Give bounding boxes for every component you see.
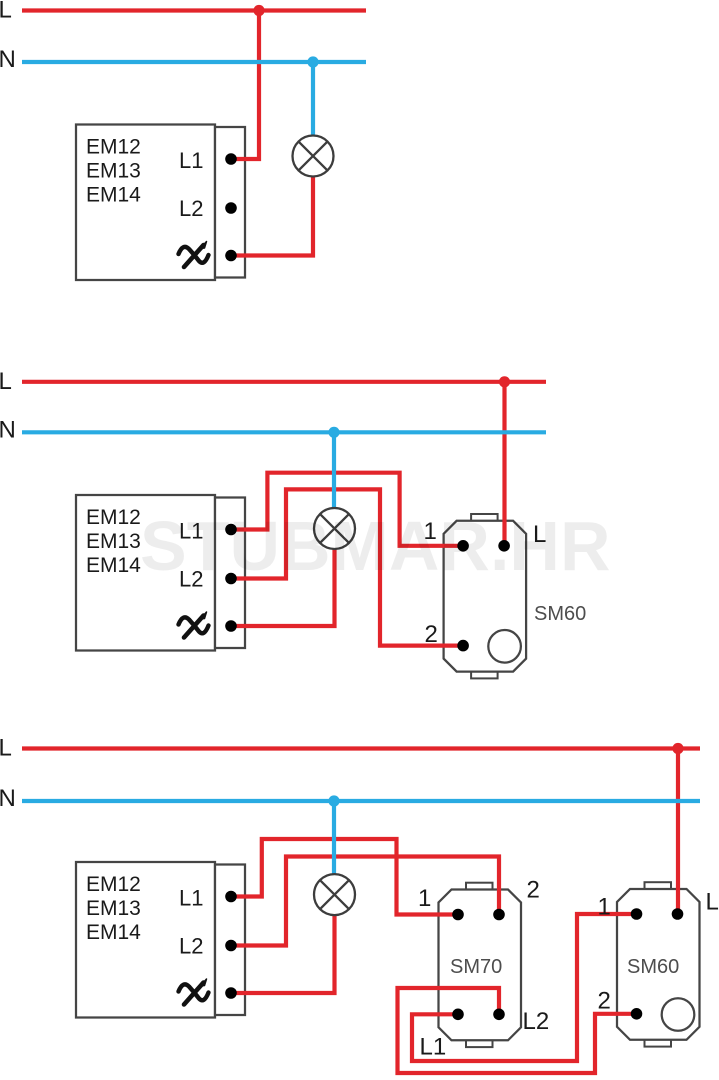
svg-text:L1: L1 xyxy=(179,148,203,173)
svg-text:L: L xyxy=(0,368,12,395)
svg-text:1: 1 xyxy=(418,885,431,912)
svg-text:EM13: EM13 xyxy=(86,160,141,183)
svg-text:L1: L1 xyxy=(420,1034,447,1061)
svg-text:EM12: EM12 xyxy=(86,873,141,896)
svg-text:L: L xyxy=(0,735,12,762)
svg-text:2: 2 xyxy=(598,988,611,1015)
svg-text:EM13: EM13 xyxy=(86,530,141,553)
svg-text:N: N xyxy=(0,46,16,73)
svg-text:L1: L1 xyxy=(179,886,203,911)
svg-text:2: 2 xyxy=(527,877,540,904)
svg-text:N: N xyxy=(0,785,16,812)
svg-text:L2: L2 xyxy=(179,934,203,959)
svg-text:SM60: SM60 xyxy=(534,603,586,625)
svg-text:L: L xyxy=(0,0,12,24)
svg-text:EM12: EM12 xyxy=(86,506,141,529)
svg-text:L2: L2 xyxy=(523,1008,550,1035)
svg-text:SM60: SM60 xyxy=(627,956,679,978)
svg-text:SM70: SM70 xyxy=(450,956,502,978)
svg-text:1: 1 xyxy=(598,894,611,921)
svg-text:EM14: EM14 xyxy=(86,554,141,577)
svg-text:EM13: EM13 xyxy=(86,897,141,920)
svg-text:EM14: EM14 xyxy=(86,184,141,207)
svg-text:STUBMAR.HR: STUBMAR.HR xyxy=(140,507,611,585)
svg-text:L2: L2 xyxy=(179,196,203,221)
svg-text:2: 2 xyxy=(425,621,438,648)
svg-text:L: L xyxy=(706,889,719,916)
svg-text:EM12: EM12 xyxy=(86,136,141,159)
svg-text:N: N xyxy=(0,416,16,443)
svg-text:EM14: EM14 xyxy=(86,921,141,944)
